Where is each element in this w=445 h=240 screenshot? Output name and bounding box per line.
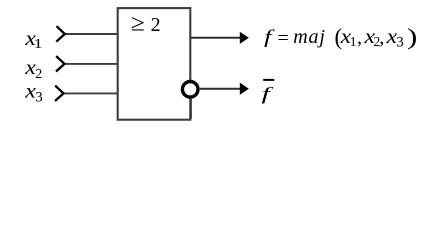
wire from bubble to box bottom edge [190,99,192,119]
wire output f-bar [200,88,241,90]
open arrowhead input 1 [56,26,65,41]
svg-text:maj: maj [293,26,326,48]
svg-text:1: 1 [33,35,42,51]
svg-text:1: 1 [350,34,357,49]
svg-text:3: 3 [396,35,404,51]
wire input 3 [64,92,118,94]
svg-text:≥: ≥ [131,10,145,36]
inversion bubble [182,82,198,98]
svg-text:): ) [407,24,417,49]
open arrowhead input 3 [55,86,64,101]
label f = maj(x1,x2,x3) [264,24,417,50]
threshold gate U1 body [118,8,191,120]
svg-text:2: 2 [151,14,161,36]
svg-text:3: 3 [35,90,43,106]
threshold label '≥ 2' [131,10,161,36]
overline of f-bar [263,79,274,81]
svg-text:,: , [379,27,384,49]
arrowhead output f-bar [240,83,249,95]
svg-text:,: , [357,27,362,49]
wire input 1 [65,33,118,35]
open arrowhead input 2 [56,56,65,71]
svg-text:=: = [278,28,289,50]
svg-text:2: 2 [35,67,42,82]
arrowhead output f [240,32,249,44]
wire output f [190,37,240,39]
wire input 2 [65,63,118,65]
